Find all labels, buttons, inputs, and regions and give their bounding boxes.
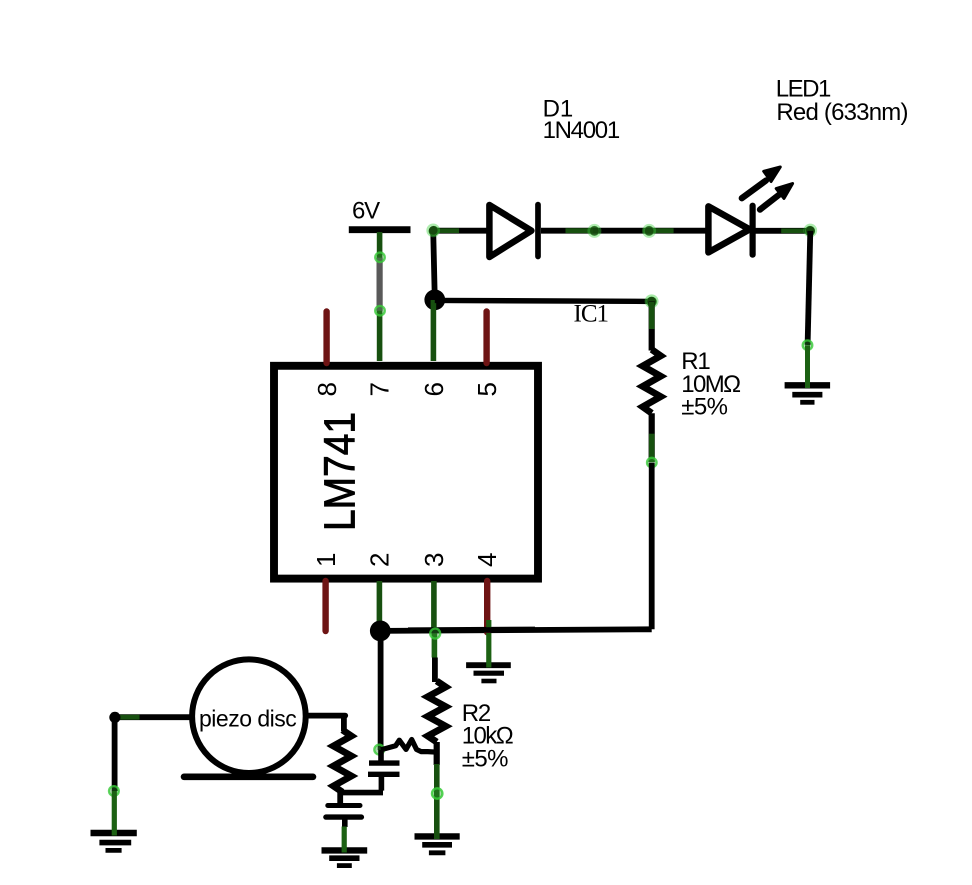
svg-text:6: 6 — [419, 382, 449, 396]
svg-text:3: 3 — [419, 553, 449, 567]
node ring pin7 lower — [375, 306, 385, 316]
wire R2 bottom lead black — [434, 742, 440, 765]
svg-text:8: 8 — [312, 382, 342, 396]
wire pin3 green below IC — [431, 581, 437, 633]
svg-text:5: 5 — [472, 382, 502, 396]
wire C2 green to ground — [342, 827, 347, 853]
resistor R1 — [643, 350, 661, 414]
piezo disc body — [192, 659, 306, 773]
wire green segment 2 on D1-LED wire — [643, 228, 673, 233]
wire pin7 to 6V (green) — [377, 232, 383, 361]
wire pin4 green nub above wire — [486, 620, 491, 627]
pin 4 stub (dark red) — [484, 581, 490, 632]
wire green segment piezo left — [119, 715, 140, 720]
svg-text:Red (633nm): Red (633nm) — [776, 99, 907, 126]
junction dot node A (pin6 top) — [424, 289, 445, 310]
trimmer resistor RT — [333, 730, 351, 792]
wire top rail to diode D1 — [433, 228, 489, 234]
wire piezo left down — [112, 717, 118, 791]
wire node A to R1 top — [435, 300, 652, 301]
ground bottom middle — [322, 850, 368, 865]
ground pin4 — [466, 665, 511, 681]
wire trimmer bottom lead — [337, 790, 343, 804]
svg-text:IC1: IC1 — [574, 301, 609, 328]
LED1 cathode bar — [749, 206, 755, 255]
wire green nub at top-left corner — [438, 228, 459, 233]
junction dot node B (pin2) — [370, 621, 391, 642]
capacitor C2 plate 2 — [326, 814, 362, 819]
node ring pin3 crossing — [430, 629, 440, 639]
wire trimmer top lead — [341, 716, 347, 731]
capacitor C1 top stub — [378, 750, 384, 761]
power symbol 6V bar — [349, 226, 411, 233]
wire green segment before corner — [781, 229, 804, 234]
node ring pin7 upper — [375, 252, 385, 262]
LED1 triangle — [708, 206, 749, 252]
svg-text:±5%: ±5% — [681, 394, 727, 421]
wire node B down to C junction — [378, 631, 384, 750]
wire LED column green to ground — [805, 345, 810, 388]
node ring R1 bottom — [647, 458, 657, 468]
LED1 arrow 1 shaft — [742, 181, 766, 199]
pin 5 stub (unconnected, dark red) — [483, 312, 489, 364]
node green dot R1 top corner — [646, 297, 656, 307]
pin 1 stub (unconnected, dark red) — [322, 581, 328, 631]
resistor R2 — [428, 681, 446, 742]
wire D1 to LED1 — [541, 228, 706, 234]
svg-text:2: 2 — [365, 553, 395, 567]
node ring piezo left — [109, 786, 119, 796]
capacitor C1 plate 2 — [368, 772, 400, 777]
wire pin3 black lead to R2 — [432, 658, 438, 683]
ground LED1 — [785, 385, 831, 402]
node ring R2 bottom — [432, 788, 442, 798]
wire LED column down — [808, 231, 811, 345]
endpoint dot piezo left corner — [109, 712, 120, 723]
wire green segment R1 top — [649, 302, 655, 329]
node ring on wire at x594 — [589, 226, 599, 236]
wire pin3 green segment below crossing — [432, 634, 438, 658]
wire piezo left green to ground — [112, 791, 117, 836]
pin 8 stub (unconnected, dark red) — [323, 312, 329, 364]
LED1 arrow 2 shaft — [760, 195, 779, 209]
wire squiggle node C to R2 bottom — [381, 740, 439, 753]
wire segment over pin3 and pin4 crossings — [408, 627, 535, 634]
node ring C (pin2 bottom) — [374, 745, 384, 755]
piezo base bar — [184, 773, 313, 780]
LED1 arrow 1 head — [764, 167, 781, 182]
wire R1 bottom lead — [649, 413, 655, 462]
wire C1 bottom to trimmer bottom — [342, 790, 384, 796]
wire LED1 to right corner — [755, 228, 810, 234]
wire piezo left lead — [115, 714, 190, 720]
diode D1 cathode bar — [535, 205, 541, 257]
capacitor C1 plate 1 — [369, 760, 400, 765]
capacitor C2 plate 1 — [328, 803, 360, 808]
node ring LED column — [803, 340, 813, 350]
wire pin6 vertical up to top rail — [433, 231, 435, 300]
capacitor C1 bottom stub — [379, 774, 385, 790]
LED1 arrow 2 head — [776, 184, 792, 199]
wire gray segment on pin7 — [377, 258, 383, 311]
wire pin4 green to ground — [486, 633, 491, 668]
wire piezo right lead — [307, 713, 345, 719]
svg-text:6V: 6V — [352, 198, 380, 225]
wire corner to junction dot B — [380, 629, 651, 631]
IC U1 LM741 body — [274, 366, 538, 579]
wire R1 bottom down to corner — [649, 463, 655, 630]
svg-text:LM741: LM741 — [316, 412, 365, 531]
svg-text:piezo disc: piezo disc — [199, 705, 296, 731]
node ring on wire at x649 — [644, 226, 654, 236]
svg-text:±5%: ±5% — [462, 745, 508, 772]
node green dot right corner — [805, 226, 815, 236]
wire R1 top lead — [649, 302, 655, 351]
ground piezo left — [91, 833, 137, 850]
capacitor C2 bottom stub — [342, 817, 348, 827]
ground R2 — [415, 836, 460, 852]
svg-text:1: 1 — [311, 553, 341, 567]
svg-text:7: 7 — [365, 382, 395, 396]
wire green segment 1 on D1-LED wire — [566, 228, 594, 233]
diode D1 triangle — [489, 205, 531, 257]
wire R2 bottom green to ground — [434, 764, 440, 839]
svg-text:1N4001: 1N4001 — [543, 117, 620, 144]
node green dot top corner — [429, 226, 439, 236]
wire pin2 green below IC — [377, 581, 383, 625]
wire pin6 green into IC — [431, 300, 437, 361]
wire green segment R1 bottom — [649, 434, 655, 462]
svg-text:4: 4 — [472, 553, 502, 567]
